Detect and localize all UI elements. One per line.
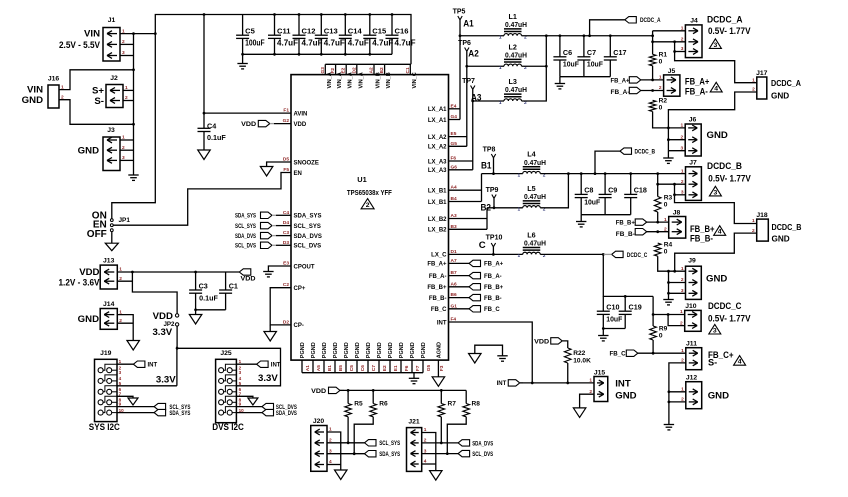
svg-text:DCDC_B: DCDC_B (635, 150, 656, 156)
wire J1 pin1 to VIN trunk (120, 33, 155, 35)
wire J21 pin2 SDA_DVS (422, 442, 458, 444)
ground AGND (432, 377, 445, 387)
wire A2 rail left (467, 65, 504, 67)
pin A5 PGND (312, 360, 314, 373)
pin F2 VIN_A (335, 64, 337, 74)
wire J12 pins (669, 391, 686, 393)
svg-text:9: 9 (239, 402, 242, 407)
svg-text:R4: R4 (664, 242, 673, 249)
svg-text:7: 7 (239, 391, 242, 396)
svg-text:TP6: TP6 (458, 40, 471, 47)
wire A1 rail right (522, 35, 653, 37)
wire R1 to FB_A+ (652, 66, 654, 80)
ground J20 (335, 470, 348, 480)
svg-text:0.47uH: 0.47uH (524, 158, 546, 167)
svg-text:PGND: PGND (421, 342, 427, 358)
capacitor C11 (274, 15, 276, 36)
capacitor C16 (391, 15, 393, 36)
svg-text:FB_A-: FB_A- (611, 90, 630, 96)
svg-text:J5: J5 (668, 68, 676, 75)
svg-text:B1: B1 (481, 161, 492, 172)
svg-text:SDA_SYS: SDA_SYS (169, 411, 190, 417)
wire C node down to caps (603, 254, 653, 296)
wire J14 pins to ground (117, 315, 133, 341)
net flag FB_B- from U1 (449, 297, 470, 299)
svg-text:INT: INT (437, 320, 447, 326)
wire J19 pin10 SDA_SYS (117, 412, 154, 414)
wire J3 pin1 (120, 139, 134, 141)
capacitor C13 (320, 15, 322, 36)
connector J13 (100, 265, 117, 289)
svg-text:F5: F5 (283, 167, 289, 173)
wire CP- to ground (269, 325, 271, 332)
inductor L5 (523, 206, 541, 208)
wire J18 pin2 to J9 ground (675, 233, 757, 271)
resistor R1 (649, 54, 656, 66)
ground J19 pin7 (128, 398, 138, 405)
svg-text:J16: J16 (48, 76, 60, 83)
wire J25 pin1 INT (236, 363, 256, 365)
connector J7 (686, 167, 702, 201)
jumper JP2 (175, 314, 178, 317)
capacitor C19 (624, 296, 626, 311)
callout triangle 3 at J4 (709, 39, 721, 49)
resistor R3 (654, 197, 661, 213)
pin B5 PGND (334, 360, 336, 373)
net flag VDD rail (239, 269, 251, 275)
svg-text:1: 1 (119, 359, 122, 364)
pin A2 VIN_B (373, 64, 375, 74)
capacitor C6 (559, 36, 561, 57)
svg-text:PGND: PGND (410, 342, 416, 358)
svg-text:FB_B-: FB_B- (690, 233, 713, 244)
wire SNOOZE to ground (267, 162, 291, 167)
svg-text:R9: R9 (659, 326, 668, 333)
svg-text:FB_C: FB_C (431, 307, 447, 313)
capacitor C4 (203, 113, 205, 128)
ground C3 C1 (189, 315, 202, 325)
svg-text:0.1uF: 0.1uF (199, 294, 218, 303)
capacitor C17 (609, 36, 611, 57)
wire R9 to J11 (652, 340, 654, 353)
svg-text:2: 2 (664, 226, 667, 232)
wire cap bank ground bus (243, 53, 392, 55)
svg-text:LX_B1: LX_B1 (428, 189, 447, 195)
svg-text:SYS I2C: SYS I2C (89, 422, 120, 433)
wire LX_A3 node (472, 89, 474, 170)
svg-text:C12: C12 (302, 26, 316, 35)
resistor R22 (564, 348, 571, 363)
svg-text:F3: F3 (439, 365, 445, 371)
svg-text:TP8: TP8 (483, 147, 496, 154)
wire J21 pin3 SCL_DVS (422, 453, 458, 455)
wire R7 to SDA_DVS (440, 417, 442, 443)
svg-text:PGND: PGND (388, 342, 394, 358)
connector J14 (100, 309, 117, 330)
wire J1 pin2 (120, 43, 134, 45)
wire J3 pin2 (120, 149, 134, 151)
svg-text:J13: J13 (103, 258, 115, 265)
resistor R2 (649, 100, 656, 111)
callout triangle 3 at J7 (709, 186, 721, 196)
wire LX_A1 node (459, 20, 461, 120)
svg-text:PGND: PGND (344, 342, 350, 358)
svg-text:G3: G3 (320, 67, 326, 74)
svg-text:DCDC_B: DCDC_B (707, 161, 742, 171)
svg-text:10uF: 10uF (587, 60, 604, 69)
svg-text:3.3V: 3.3V (152, 327, 172, 338)
svg-text:2.5V - 5.5V: 2.5V - 5.5V (59, 40, 101, 51)
svg-text:10uF: 10uF (606, 315, 623, 324)
svg-text:FB_A+: FB_A+ (611, 78, 630, 84)
svg-text:FB_B-: FB_B- (484, 296, 502, 302)
net flag DCDC_A (590, 20, 625, 36)
wire J3 pin3 (120, 159, 134, 161)
svg-text:FB_B+: FB_B+ (427, 285, 447, 291)
net flag DCDC_B (595, 151, 620, 174)
svg-text:1: 1 (499, 35, 502, 41)
wire J25 pin5 3.3V (177, 348, 280, 386)
svg-text:C15: C15 (372, 26, 387, 35)
svg-text:PGND: PGND (311, 342, 317, 358)
svg-text:J11: J11 (686, 341, 697, 348)
ground J25 pin7 (248, 398, 258, 405)
wire J19 pin5 3.3V (117, 385, 177, 387)
pin F7 PGND (411, 360, 413, 373)
wire A3 to A1 join (522, 36, 547, 101)
ground B output caps (576, 221, 586, 223)
wire B1 rail right (540, 173, 657, 175)
wire A1 rail left (460, 35, 504, 37)
svg-text:GND: GND (706, 273, 727, 284)
svg-text:PGND: PGND (399, 342, 405, 358)
svg-text:5: 5 (239, 381, 242, 386)
wire J20 pins1-4 ground (327, 432, 341, 470)
wire J11 pin2 to J12 ground (669, 363, 686, 425)
svg-text:GND: GND (78, 314, 99, 325)
svg-text:10.0K: 10.0K (573, 358, 591, 365)
svg-text:SNOOZE: SNOOZE (294, 160, 319, 166)
wire J20 pin2 SCL_SYS (327, 442, 365, 444)
wire B1 rail left (482, 173, 523, 175)
svg-text:1: 1 (589, 378, 592, 384)
wire R4 to J9 (658, 256, 686, 271)
ground tie triangle (469, 354, 482, 364)
svg-text:PGND: PGND (322, 342, 328, 358)
svg-text:F2: F2 (330, 68, 336, 74)
wire R6 to SDA_SYS (354, 417, 373, 454)
capacitor C3 (195, 272, 197, 290)
svg-text:4.7uF: 4.7uF (372, 38, 393, 47)
svg-text:C8: C8 (584, 185, 593, 194)
wire J6 pins (668, 139, 685, 141)
wire J25 pin7 ground (236, 396, 253, 398)
pin G3 VIN_A (324, 64, 326, 74)
wire EN to U1 (113, 173, 291, 226)
wire C output cap ground bus (603, 328, 625, 330)
svg-text:LX_A3: LX_A3 (428, 168, 447, 174)
wire VIN pin bus (325, 63, 411, 65)
svg-text:SCL_SYS: SCL_SYS (379, 441, 400, 447)
pin C1 VIN_C (409, 64, 411, 74)
wire top VIN bus (155, 15, 411, 65)
svg-text:B1: B1 (327, 365, 333, 371)
svg-text:J17: J17 (756, 70, 768, 77)
svg-text:4: 4 (738, 359, 742, 366)
resistor R9 (650, 326, 657, 340)
pin F3 AGND (437, 360, 439, 377)
svg-text:1: 1 (752, 77, 755, 83)
pin B2 VIN_B (384, 64, 386, 74)
svg-text:PGND: PGND (300, 342, 306, 358)
svg-text:R22: R22 (573, 350, 585, 357)
svg-text:C5: C5 (349, 365, 355, 371)
wire R22 to INT (567, 363, 569, 383)
inductor L4 (523, 171, 541, 173)
inductor L6 (523, 252, 541, 254)
connector J1 (103, 28, 120, 62)
net flag FB_A- from U1 (449, 275, 470, 277)
ground J15 (573, 408, 586, 418)
svg-text:J8: J8 (673, 209, 681, 216)
svg-text:SCL_SYS: SCL_SYS (294, 224, 321, 230)
svg-text:C: C (479, 240, 486, 251)
svg-text:1: 1 (681, 26, 684, 32)
svg-text:7: 7 (119, 391, 122, 396)
svg-text:FB_B-: FB_B- (616, 232, 635, 238)
svg-text:SCL_DVS: SCL_DVS (472, 452, 493, 458)
wire J16 pin1 VIN (59, 70, 134, 90)
net flag SDA_SYS at J19 (154, 409, 166, 415)
svg-text:1: 1 (681, 348, 684, 354)
wire J4 pin3 to J17 (675, 51, 686, 53)
svg-text:DCDC_C: DCDC_C (708, 301, 742, 311)
svg-text:1: 1 (659, 75, 662, 81)
net flag FB_A+ from U1 (449, 262, 470, 264)
svg-text:0.47uH: 0.47uH (505, 85, 527, 94)
wire AVIN feed (204, 15, 291, 114)
connector J19 SYS I2C header (95, 359, 118, 421)
net flag DCDC_C (612, 251, 624, 257)
svg-text:FB_C: FB_C (484, 307, 500, 313)
svg-text:C1: C1 (229, 281, 238, 290)
svg-text:0.5V- 1.77V: 0.5V- 1.77V (708, 26, 751, 36)
svg-text:0.5V- 1.77V: 0.5V- 1.77V (708, 313, 751, 323)
svg-text:INT: INT (615, 379, 631, 390)
connector J5 (664, 75, 680, 96)
svg-text:FB_A+: FB_A+ (427, 262, 447, 268)
svg-text:R1: R1 (659, 52, 668, 59)
svg-text:CP+: CP+ (294, 286, 306, 292)
callout triangle 4 at J5 (710, 82, 722, 92)
resistor R5 (347, 390, 349, 403)
svg-text:J10: J10 (685, 303, 697, 310)
svg-text:C4: C4 (207, 122, 216, 131)
svg-text:E2: E2 (341, 67, 347, 73)
svg-text:1.2V - 3.6V: 1.2V - 3.6V (59, 278, 101, 289)
svg-text:TPS65038x YFF: TPS65038x YFF (347, 188, 392, 197)
connector J2 (106, 85, 123, 108)
wire B output cap ground bus (581, 214, 631, 216)
svg-text:C1: C1 (405, 67, 411, 73)
svg-text:4.7uF: 4.7uF (277, 38, 298, 47)
svg-text:R8: R8 (472, 400, 481, 407)
net flag FB_B+ from U1 (449, 286, 470, 288)
svg-text:B2: B2 (379, 67, 385, 73)
svg-text:1: 1 (664, 217, 667, 223)
svg-text:TP7: TP7 (462, 78, 475, 85)
inductor L2 (504, 64, 522, 66)
net flag SDA_DVS at J25 (262, 409, 274, 415)
wire C rail right (540, 253, 603, 255)
svg-text:CPOUT: CPOUT (294, 264, 315, 270)
svg-text:G5: G5 (426, 364, 432, 371)
svg-text:4: 4 (714, 85, 718, 92)
connector J21 (407, 428, 422, 472)
svg-text:2: 2 (681, 179, 684, 185)
wire A rail to J4 (652, 31, 654, 55)
ground cap bank (237, 63, 247, 65)
wire CPOUT to ground (268, 266, 291, 272)
wire J2 pin2 (123, 100, 134, 102)
net flag SCL_DVS at J21 (458, 450, 470, 456)
svg-text:S+: S+ (92, 86, 104, 97)
svg-text:U1: U1 (357, 175, 366, 184)
svg-text:3.3V: 3.3V (156, 375, 176, 386)
svg-text:AVIN: AVIN (294, 111, 308, 117)
ground PGND (409, 377, 419, 379)
svg-text:VDD: VDD (241, 277, 257, 283)
svg-text:C19: C19 (629, 303, 642, 312)
svg-text:J12: J12 (686, 375, 698, 382)
svg-text:LX_A1: LX_A1 (428, 118, 447, 124)
svg-text:DCDC_C: DCDC_C (627, 253, 648, 259)
net flag FB_C from U1 (449, 308, 470, 310)
svg-text:SDA_DVS: SDA_DVS (276, 411, 297, 417)
svg-text:DVS I2C: DVS I2C (212, 422, 244, 433)
pin E1 PGND (389, 360, 391, 373)
svg-text:10uF: 10uF (563, 60, 580, 69)
wire R2 to J6 ground bus (653, 112, 686, 128)
resistor R7 (440, 390, 442, 403)
svg-text:2: 2 (681, 37, 684, 43)
ground J21 (430, 471, 443, 481)
wire LX_A2 node (466, 51, 468, 146)
wire R3 to FB_B+ (657, 212, 659, 222)
svg-text:1: 1 (239, 359, 242, 364)
wire J2 pin1 (123, 89, 134, 91)
pin D2 VIN_A (356, 64, 358, 74)
wire A2 to A1 join (522, 65, 547, 67)
inductor L1 (504, 34, 522, 36)
wire J25 pin10 SDA_DVS (236, 412, 262, 414)
svg-text:4.7uF: 4.7uF (348, 38, 369, 47)
connector J8 (669, 217, 686, 239)
wire J16 pin2 GND (59, 100, 134, 125)
svg-text:AGND: AGND (436, 342, 442, 358)
pin E2 PGND (378, 360, 380, 373)
svg-text:GND: GND (708, 390, 729, 401)
ground J14 (127, 341, 140, 351)
svg-text:R6: R6 (379, 400, 388, 407)
svg-text:J21: J21 (408, 418, 420, 425)
wire R5 to SCL_SYS (347, 417, 349, 443)
wire J1 pin3 (120, 55, 134, 57)
svg-text:1: 1 (681, 168, 684, 174)
svg-text:SDA_SYS: SDA_SYS (235, 214, 256, 220)
ground VIN trunk (128, 174, 138, 176)
pin C5 PGND (345, 360, 347, 373)
callout triangle 4 at J8 (714, 226, 726, 236)
svg-text:VDD: VDD (294, 122, 307, 128)
resistor R4 (654, 243, 661, 256)
inductor L3 (504, 99, 522, 101)
pin F6 PGND (400, 360, 402, 373)
wire JP1 OFF to ground (111, 232, 113, 244)
wire C rail to J10 and R9 (652, 296, 654, 326)
ground J9 (663, 299, 673, 301)
ground SNOOZE (260, 167, 273, 177)
svg-text:LX_A2: LX_A2 (428, 135, 447, 141)
svg-text:C16: C16 (395, 26, 409, 35)
capacitor C8 (580, 174, 582, 195)
svg-text:9: 9 (119, 402, 122, 407)
svg-text:FB_B-: FB_B- (429, 296, 447, 302)
connector J11 (686, 348, 702, 370)
svg-text:DCDC_A: DCDC_A (771, 79, 801, 88)
svg-text:INT: INT (497, 381, 507, 387)
svg-text:SDA_SYS: SDA_SYS (379, 452, 400, 458)
connector J18 (757, 219, 769, 241)
svg-text:1: 1 (499, 100, 502, 106)
svg-text:EN: EN (294, 171, 302, 177)
wire J20 pin3 SDA_SYS (327, 453, 365, 455)
svg-text:4.7uF: 4.7uF (302, 38, 323, 47)
svg-text:LX_B1: LX_B1 (428, 200, 447, 206)
svg-text:J15: J15 (594, 369, 606, 376)
pin G5 PGND (422, 360, 424, 373)
wire VDD rail (117, 271, 239, 273)
connector J17 (757, 77, 767, 99)
svg-text:SDA_DVS: SDA_DVS (235, 234, 256, 240)
net flag SDA_DVS at J21 (458, 440, 470, 446)
svg-text:J25: J25 (220, 350, 232, 357)
capacitor C18 (630, 174, 632, 195)
svg-text:1: 1 (752, 218, 755, 224)
connector J10 (685, 310, 701, 331)
capacitor C10 (602, 296, 604, 311)
svg-text:GND: GND (772, 235, 790, 244)
ground C output caps (598, 335, 608, 337)
callout triangle 4 at J11 (734, 356, 746, 366)
ground tie bar (497, 355, 507, 357)
svg-text:C11: C11 (277, 26, 291, 35)
resistor R8 (465, 390, 467, 403)
svg-text:A2: A2 (369, 67, 375, 73)
svg-text:FB_C: FB_C (610, 352, 627, 358)
svg-text:J9: J9 (688, 258, 696, 265)
wire VIN to JP1 ON (112, 34, 156, 219)
svg-text:INT: INT (271, 363, 281, 369)
svg-text:DCDC_A: DCDC_A (640, 18, 661, 24)
callout triangle 3 at J10 (709, 324, 721, 334)
svg-text:A2: A2 (468, 49, 479, 60)
svg-text:FB_A-: FB_A- (484, 274, 502, 280)
svg-text:C7: C7 (371, 365, 377, 371)
svg-text:PGND: PGND (355, 342, 361, 358)
svg-text:2: 2 (659, 85, 662, 91)
svg-text:LX_A3: LX_A3 (428, 159, 447, 165)
